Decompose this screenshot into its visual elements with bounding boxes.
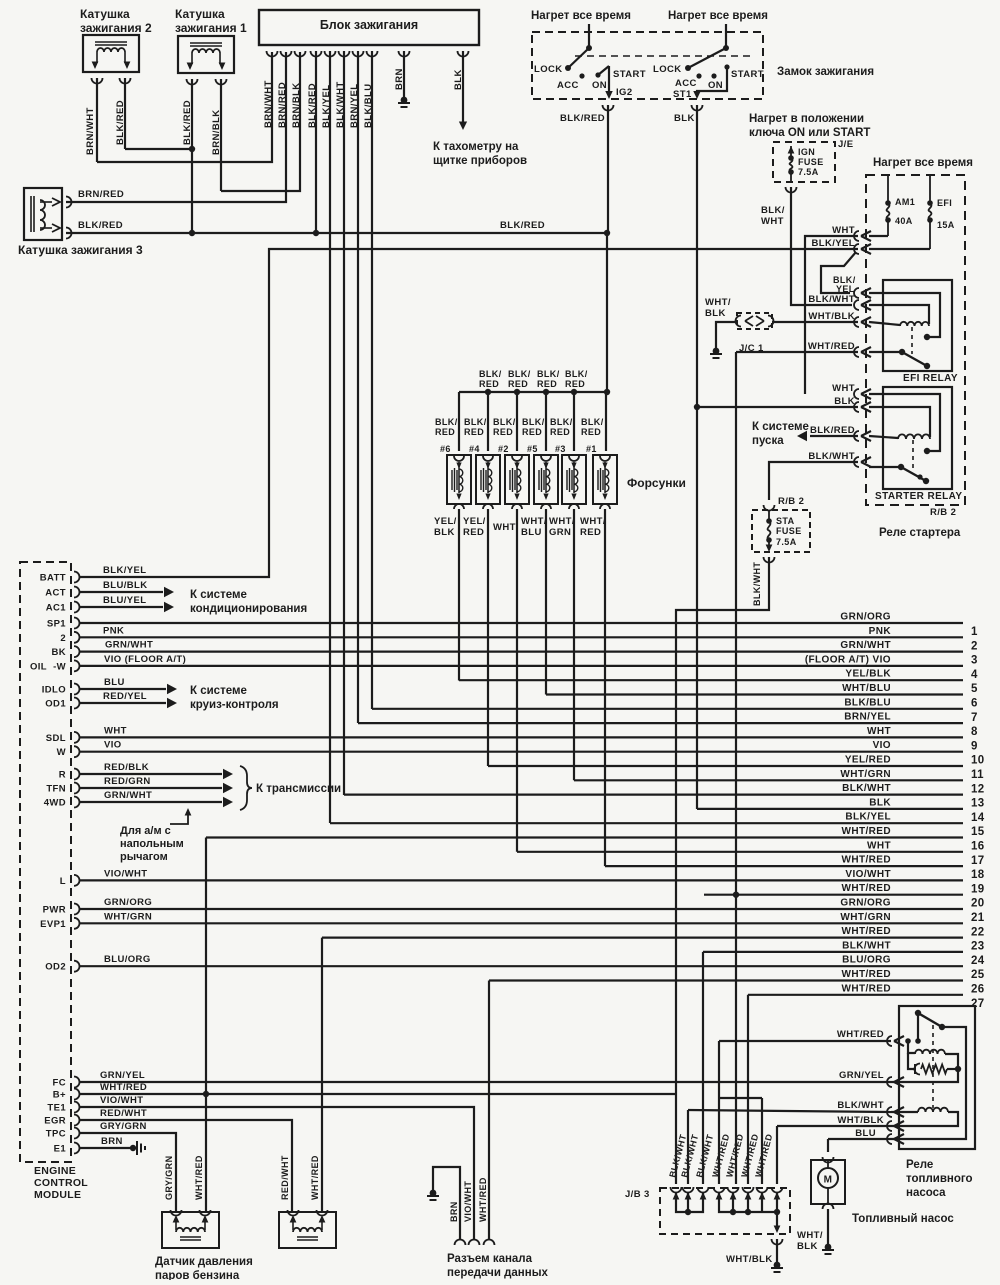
switch link dashed [575,55,752,57]
svg-text:BLU/ORG: BLU/ORG [104,954,151,965]
label wire number 19 [971,883,985,895]
wire BLK/YEL from EFI fuse [869,248,930,250]
IGN fuse box [773,142,835,182]
ST1 chevron [692,105,703,111]
label WHT wire 17 [867,840,891,851]
ECM pin EVP1 [40,918,79,930]
label BRN/WHT igniter pin [263,80,274,128]
injector #2 [505,455,529,509]
wire TE1 VIO/WHT [80,1107,474,1240]
svg-text:27: 27 [971,998,985,1010]
wire 26 WHT/RED [489,979,963,981]
label BRN data link [449,1201,459,1222]
switch1 pivot [586,45,592,51]
coil1 left pin chevron [187,79,198,85]
ignition switch caption [777,66,874,78]
label WHT/RED jb3 x762 [753,1133,774,1179]
ECM pin OIL -W [30,660,80,672]
J/B3 bus WHT/RED [719,1192,777,1215]
svg-text:18: 18 [971,869,985,881]
label R/B 2 sta [778,496,804,507]
label BLK/RED coil2 [115,100,126,145]
label BLK/WHT wire 13 [842,783,891,794]
svg-text:К системе: К системе [752,421,809,433]
switch2 label ST1 [673,89,692,100]
svg-text:6: 6 [971,698,978,710]
ECM pin BK [51,646,79,658]
label wire number 17 [971,855,985,867]
ground fuel pump [822,1244,834,1254]
svg-text:щитке приборов: щитке приборов [433,155,527,167]
svg-text:E1: E1 [54,1144,67,1155]
starter relay wire A [869,394,940,454]
svg-text:WHT/BLK: WHT/BLK [726,1254,773,1265]
wire BRN/RED coil3 to igniter [66,52,286,202]
svg-text:WHT/: WHT/ [549,516,575,527]
switch1 LOCK contact [565,65,571,71]
pin WHT/RED efi [854,347,871,357]
svg-text:3: 3 [971,655,978,667]
label RED/BLK [104,762,149,773]
wire STA fuse to J/B3 [676,557,769,1184]
label wire number 15 [971,826,985,838]
svg-text:ACC: ACC [557,80,579,91]
svg-text:CONTROL: CONTROL [34,1177,88,1189]
label hot-at-all-times right [873,157,973,169]
svg-text:WHT/RED: WHT/RED [808,341,855,352]
label BLK igniter [453,69,464,90]
label BLK/BLU igniter pin [363,84,374,129]
ECM pin PWR [43,904,80,916]
svg-text:16: 16 [971,841,985,853]
svg-text:BLK/: BLK/ [565,369,588,379]
wire 23 riser [321,938,323,1212]
coil2 right pin chevron [120,78,131,84]
svg-text:OD2: OD2 [45,962,66,973]
ECM pin 2 [60,632,79,644]
svg-text:BRN/WHT: BRN/WHT [85,107,96,155]
label wire number 4 [971,669,978,681]
coil3 pin BLK/RED chevron [66,228,72,239]
label wire number 14 [971,812,985,824]
wire R RED/BLK [80,769,233,780]
starter relay coil [898,434,930,439]
label wire number 9 [971,740,978,752]
label BLU/ORG od2 [104,954,151,965]
svg-text:GRN/YEL: GRN/YEL [100,1070,145,1081]
ground BRN data link [427,1190,439,1200]
label #2 [498,444,509,454]
ignition coil 3 caption [18,243,143,257]
injector #5 [534,455,558,509]
svg-text:BRN: BRN [394,68,405,90]
label WHT/RED pump relay [837,1029,884,1040]
label (FLOOR A/T) VIO wire 4 [805,654,891,665]
svg-text:BLU: BLU [855,1128,876,1139]
label WHT/RED wire 16 [842,826,891,837]
fuel pump bottom chevron [823,1204,834,1210]
label RED/WHT sensor2 [280,1155,290,1200]
label IGN FUSE 7.5A [798,147,824,177]
svg-text:BLK: BLK [834,396,855,407]
svg-text:WHT/RED: WHT/RED [842,883,891,894]
floor-shift note [120,825,184,863]
wire IG2 out [605,66,613,99]
svg-text:LOCK: LOCK [534,64,563,75]
label GRN/YEL pump relay [839,1070,884,1081]
ignition coil 1 [178,36,234,73]
wire BRN/BLK link [221,52,300,191]
label YEL/RED injector lead [463,516,486,538]
pin BLK/RED starter [854,431,871,441]
switch2 pivot [723,45,729,51]
svg-text:RED: RED [565,379,585,389]
wire EFI relay WHT/RED drop [735,352,737,1184]
wire FC GRN/YEL [80,1081,891,1083]
switch1 label START [613,69,646,80]
label BLK/YEL wire 15 [845,812,891,823]
wire 5 YEL/BLK [459,679,963,681]
ECM box [20,562,71,1162]
label WHT/GRN evp1 [104,911,152,922]
IGN fuse symbol [788,146,795,182]
label BRN/WHT coil2 [85,107,96,155]
ECM pin TFN [46,783,79,795]
injector #4 [476,455,500,509]
wire BRN/WHT link [97,52,272,162]
label VIO/WHT l [104,868,147,879]
svg-text:BLK/: BLK/ [550,417,573,427]
svg-text:VIO/WHT: VIO/WHT [463,1181,473,1222]
label wire number 24 [971,955,985,967]
node injector bus x574 [571,389,577,395]
wire IGN fuse BLK/WHT [791,187,852,305]
pin BLK/YEL2 efi [854,288,871,298]
label BRN/RED igniter pin [277,82,288,128]
label J/C 1 [739,343,764,354]
wire IG2 BLK/RED vertical [607,105,608,392]
pin WHT starter [854,389,871,399]
svg-text:Катушка: Катушка [175,7,225,21]
svg-text:BLK/: BLK/ [581,417,604,427]
label wire number 10 [971,755,985,767]
injector #3 [562,455,586,509]
wire TFN RED/GRN [80,783,233,794]
wire BLK/YEL U-link [821,252,856,293]
svg-text:WHT: WHT [867,840,891,851]
node coil1 BLK/RED join [189,146,195,152]
label WHT/RED sensor1 [194,1155,204,1200]
starter relay caption [879,527,961,539]
switch2 label ON [708,80,723,91]
svg-text:RED/WHT: RED/WHT [280,1155,290,1200]
svg-text:YEL: YEL [836,284,855,294]
svg-text:(FLOOR A/T) VIO: (FLOOR A/T) VIO [805,654,891,665]
svg-text:Нагрет все время: Нагрет все время [873,157,973,169]
svg-text:BRN/WHT: BRN/WHT [263,80,274,128]
svg-text:RED: RED [463,527,484,538]
label WHT/GRN wire 12 [840,769,891,780]
injectors caption [627,476,686,490]
svg-text:BLK/RED: BLK/RED [500,220,545,231]
ignition coil 2 caption [80,7,152,35]
wire 26 drop [488,981,490,1241]
svg-text:WHT/RED: WHT/RED [842,855,891,866]
pump relay switch out [891,1027,966,1139]
igniter pin BLK/BLU chevron [367,51,378,57]
svg-text:Реле стартера: Реле стартера [879,527,961,539]
switch1 label ACC [557,80,579,91]
label BLK/RED bus tap x546 [537,369,560,389]
label PNK wire 2 [869,626,892,637]
wire 13 BLK/WHT [344,793,963,795]
label WHT/RED jb3 x733 [724,1133,745,1179]
STA fuse in chevron [764,505,775,511]
svg-text:FC: FC [53,1078,66,1089]
label #6 [440,444,451,454]
svg-text:К трансмиссии: К трансмиссии [256,783,341,795]
J/B3 pin x688 chevron [683,1187,694,1200]
wire injector tap x517 [516,392,518,451]
svg-text:WHT/BLU: WHT/BLU [842,683,891,694]
caption to start system [752,421,809,447]
ground J/B3 [771,1262,783,1272]
svg-text:WHT: WHT [761,216,784,227]
svg-text:LOCK: LOCK [653,64,682,75]
svg-text:Разъем канала: Разъем канала [447,1253,533,1265]
label WHT sdl [104,725,127,736]
pump relay pivot feed [905,1013,921,1069]
svg-text:BLK/RED: BLK/RED [115,100,126,145]
relay block R/B 2 box [866,175,965,505]
svg-text:ACT: ACT [45,588,66,599]
pin WHT/RED pump relay [887,1036,904,1046]
wire BLK/RED to start system [797,431,858,442]
svg-text:ENGINE: ENGINE [34,1165,76,1177]
svg-text:YEL/BLK: YEL/BLK [845,669,891,680]
igniter pin BRN/BLK chevron [295,51,306,57]
svg-text:-W: -W [53,661,66,672]
ignition coil 3 [24,188,62,240]
label #1 [586,444,597,454]
label AM1 40A [895,197,915,226]
svg-text:23: 23 [971,941,985,953]
label PNK [103,625,124,636]
label WHT/RED sensor2 [310,1155,320,1200]
switch2 START contact [724,64,729,69]
svg-text:BLU/BLK: BLU/BLK [103,580,148,591]
ECM pin BATT [40,572,80,584]
switch2 lever [688,48,726,68]
svg-text:круиз-контроля: круиз-контроля [190,699,279,711]
label GRN/WHT wire 3 [840,640,891,651]
wire BRN to ground [403,51,405,97]
wire J/B3 WHT/RED feed [719,1041,762,1184]
label VIO/WHT wire 19 [845,869,891,880]
ECM pin 4WD [44,797,80,809]
label YEL/BLK injector lead [434,516,457,538]
label WHT/BLU injector lead [521,516,547,538]
svg-text:7.5A: 7.5A [776,537,797,547]
svg-text:BRN/RED: BRN/RED [78,189,124,200]
label wire number 5 [971,683,978,695]
svg-text:IG2: IG2 [616,87,633,98]
node injector bus x517 [514,389,520,395]
caption to AC system [190,589,307,615]
svg-text:10: 10 [971,755,985,767]
label GRN/YEL fc [100,1070,145,1081]
svg-text:FUSE: FUSE [776,526,802,536]
label J/B 3 [625,1189,650,1200]
svg-text:ON: ON [592,80,607,91]
wire 27 drop [747,995,749,1184]
injector #1 [593,455,617,509]
svg-text:BLK: BLK [797,1241,818,1252]
wire injector tap x546 [545,392,547,451]
fuel pump relay box [899,1006,975,1149]
label wire number 13 [971,798,985,810]
svg-text:EFI: EFI [937,198,952,208]
ECM pin ACT [45,587,79,599]
igniter caption [320,18,418,32]
node pump relay coil join [955,1066,961,1072]
label wire number 8 [971,726,978,738]
wire injector lead x517 [516,509,518,852]
svg-text:RED: RED [537,379,557,389]
wire injector lead x574 [573,509,575,780]
wire igniter BLK/YEL vertical [329,51,331,823]
J/B 3 box [660,1188,790,1234]
coil3 pin BRN/RED chevron [66,197,72,208]
svg-text:BLK/: BLK/ [537,369,560,379]
pin GRN/YEL pump relay [887,1077,904,1087]
label wire number 2 [971,640,978,652]
wire WHT/BLK jc left to ground [716,322,737,348]
wire coil2 BLK/RED down [124,78,126,149]
label STARTER RELAY [875,491,962,502]
data link WHT/RED chevron [484,1240,495,1246]
svg-text:WHT/: WHT/ [705,297,731,308]
svg-text:RED: RED [581,427,601,437]
data link caption [447,1253,549,1279]
fuel pump caption [852,1213,954,1225]
label VIO w [104,740,122,751]
wire injector tap x574 [573,392,575,451]
starter relay coil left lead [869,436,898,438]
svg-text:зажигания 2: зажигания 2 [80,21,152,35]
E1 ground symbol [130,1141,145,1155]
J/B3 pin x733 chevron [728,1187,739,1200]
EFI relay wire B coil right [869,305,929,324]
svg-text:14: 14 [971,812,985,824]
IG2 chevron [603,105,614,111]
ECM caption [34,1165,88,1201]
igniter box [259,10,479,45]
svg-text:RED: RED [522,427,542,437]
svg-text:К тахометру на: К тахометру на [433,141,519,153]
switch2 LOCK contact [685,65,691,71]
label BLK/WHT igniter pin [335,81,346,128]
svg-text:2: 2 [60,633,66,644]
svg-text:7.5A: 7.5A [798,167,819,177]
svg-text:WHT/RED: WHT/RED [310,1155,320,1200]
fuel pump top chevron [823,1157,834,1163]
svg-text:WHT: WHT [832,225,855,236]
ECM pin EGR [44,1115,79,1127]
wire BLU to pump [828,1139,891,1152]
wire feed switch 1 [588,24,590,48]
svg-text:BRN/BLK: BRN/BLK [211,109,222,155]
svg-text:YEL/: YEL/ [434,516,457,527]
switch2 ON contact [711,73,716,78]
svg-text:WHT/RED: WHT/RED [194,1155,204,1200]
svg-text:BRN/BLK: BRN/BLK [291,82,302,128]
label BRN/YEL wire 8 [844,712,891,723]
igniter pin BLK/WHT chevron [339,51,350,57]
label GRY/GRN tpc [100,1121,147,1132]
svg-text:4WD: 4WD [44,798,66,809]
svg-text:15: 15 [971,826,985,838]
label WHT/BLK jb3 [726,1254,773,1265]
svg-text:WHT/RED: WHT/RED [837,1029,884,1040]
switch1 IG2 contact arm [598,66,609,75]
node wire 20 at EFI relay feed [733,892,739,898]
svg-text:BLK/WHT: BLK/WHT [842,940,891,951]
label BLU/BLK [103,580,148,591]
label GRN/WHT 4wd [104,790,152,801]
label BLK/RED coil1 [182,100,193,145]
wire 16 riser [205,838,207,1213]
label hot-at-all-times left [531,10,631,22]
label WHT/BLK pump [797,1230,823,1252]
svg-text:BLK: BLK [674,113,695,124]
svg-text:VIO/WHT: VIO/WHT [104,868,147,879]
ECM pin OD2 [45,961,79,973]
svg-text:BLK/RED: BLK/RED [78,220,123,231]
svg-text:STA: STA [776,516,795,526]
label wire number 16 [971,841,985,853]
node injector bus IG2 [604,389,610,395]
svg-text:WHT/: WHT/ [797,1230,823,1241]
label #3 [555,444,566,454]
switch2 label START [731,69,764,80]
wire B+ WHT/RED [80,1093,676,1095]
label WHT/RED data link [478,1177,488,1222]
label BLK/RED above injector #4 [464,417,487,437]
wire 20 WHT/RED [704,894,963,896]
svg-text:J/B 3: J/B 3 [625,1189,650,1200]
STA fuse box [752,510,810,552]
label BLK/WHT pump relay [837,1100,884,1111]
label BLK/WHT jb3 x688 [679,1133,700,1178]
svg-text:1: 1 [971,626,978,638]
wire igniter BRN/YEL vertical [357,51,359,723]
wire injector lead x605 [604,509,606,866]
svg-text:Топливный насос: Топливный насос [852,1213,954,1225]
svg-text:напольным: напольным [120,838,184,850]
wire BLK/WHT pump relay [688,1110,891,1184]
pin WHT efi [854,231,871,241]
svg-text:VIO (FLOOR A/T): VIO (FLOOR A/T) [104,654,186,665]
label #5 [527,444,538,454]
svg-text:R/B 2: R/B 2 [930,507,956,518]
svg-text:GRN/YEL: GRN/YEL [839,1070,884,1081]
wire WHT from AM1 [869,235,888,237]
wire 27 WHT/RED [748,994,963,996]
label wire number 26 [971,984,985,996]
data link BRN chevron [455,1240,466,1246]
svg-text:рычагом: рычагом [120,851,168,863]
